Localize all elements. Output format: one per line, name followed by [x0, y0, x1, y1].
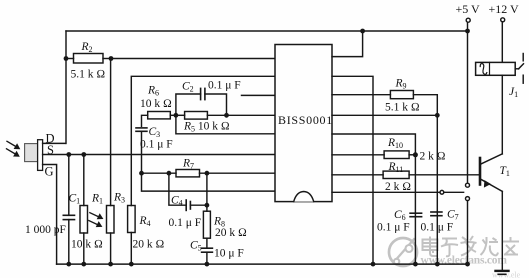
node R5 C2 right junction — [224, 113, 229, 118]
svg-text:20 k Ω: 20 k Ω — [133, 239, 165, 251]
R3 light arrows — [89, 213, 100, 225]
transistor T1 — [479, 158, 482, 185]
wire bottom ground bus — [57, 263, 468, 265]
wire BISS pin row4 right — [332, 114, 437, 116]
svg-text:2 k Ω: 2 k Ω — [385, 181, 411, 193]
capacitor C7 — [431, 211, 442, 213]
svg-text:5.1 k Ω: 5.1 k Ω — [385, 102, 420, 114]
svg-text:2 k Ω: 2 k Ω — [420, 151, 446, 163]
relay contact stub and blade — [515, 68, 518, 70]
node R2 right junction — [109, 56, 114, 61]
node C4 R8 junction — [205, 203, 210, 208]
capacitor C5 — [206, 238, 208, 248]
wire BISS pin row2 to R4 — [131, 76, 275, 205]
wire relay coil to T1 collector — [501, 75, 503, 154]
svg-text:10 k Ω: 10 k Ω — [140, 98, 172, 110]
svg-text:BISS0001: BISS0001 — [278, 113, 333, 127]
svg-text:10 k Ω: 10 k Ω — [71, 239, 103, 251]
PIR sensor flange bar — [38, 140, 43, 171]
watermark logo — [389, 238, 417, 266]
wire BISS pin row3 stub — [242, 94, 276, 96]
wire top +5V rail — [66, 30, 468, 32]
wire PIR source S pin to BISS — [43, 154, 275, 156]
svg-text:+12 V: +12 V — [489, 2, 520, 16]
svg-text:+5 V: +5 V — [456, 2, 481, 16]
capacitor C3 — [136, 127, 147, 129]
resistor R4 — [128, 206, 136, 233]
resistor R1 — [83, 155, 85, 206]
wire C3 down to R7 node and BISS pin row8 — [142, 131, 276, 191]
svg-text:0.1 μ F: 0.1 μ F — [140, 139, 173, 151]
wire R2 junction down to R3 — [110, 59, 112, 206]
+5V terminal — [466, 18, 470, 22]
resistor R2 — [74, 54, 104, 64]
node C1 top junction — [66, 152, 71, 157]
svg-text:S: S — [47, 143, 54, 157]
svg-text:0.1 μ F: 0.1 μ F — [208, 80, 241, 92]
capacitor C4 — [169, 173, 186, 205]
svg-text:R5 10 k Ω: R5 10 k Ω — [183, 121, 230, 134]
resistor R11 — [332, 174, 383, 176]
svg-text:10 μ F: 10 μ F — [214, 248, 244, 260]
resistor R9 — [332, 94, 390, 96]
resistor R10 — [332, 154, 384, 156]
wire PIR gate G pin — [43, 165, 57, 265]
svg-text:G: G — [45, 165, 54, 179]
wire left vertical from rail to PIR drain — [65, 31, 67, 143]
+12V terminal — [501, 18, 505, 22]
+12V line down to relay coil — [501, 22, 503, 63]
node R10 right junction — [413, 152, 418, 157]
watermark chinese characters — [423, 236, 520, 256]
wire R6 node down to BISS pin row5 — [176, 115, 275, 134]
node R6 R5 C2 left junction — [174, 113, 179, 118]
wire PIR drain D pin — [43, 142, 66, 144]
wire BISS vcc pin to rail — [332, 31, 363, 57]
capacitor C6 — [410, 212, 422, 214]
resistor R5 — [170, 114, 184, 116]
switch blade terminal circle — [440, 190, 444, 194]
resistor R8 — [206, 173, 208, 211]
node C7 bus junction — [435, 262, 440, 267]
wire R7 node line — [142, 172, 177, 174]
wire BISS output pin to switch blade — [332, 191, 440, 193]
node rail BISS tap — [360, 29, 365, 34]
PIR sensor light arrows — [7, 141, 17, 154]
node R1 top junction — [81, 152, 86, 157]
svg-text:0.1 μ F: 0.1 μ F — [169, 217, 202, 229]
wire BISS pin row5 right to C6 line — [332, 134, 415, 264]
svg-text:20 k Ω: 20 k Ω — [215, 227, 247, 239]
switch lower contact — [466, 197, 470, 201]
svg-text:5.1 k Ω: 5.1 k Ω — [71, 69, 106, 81]
svg-text:0.1 μ F: 0.1 μ F — [421, 222, 454, 234]
PIR sensor body — [25, 144, 38, 162]
node R2 left junction — [64, 56, 69, 61]
node R9 pin junction — [435, 113, 440, 118]
wire R11 to T1 base — [409, 174, 479, 176]
resistor R7 — [176, 170, 200, 177]
svg-text:0.1 μ F: 0.1 μ F — [377, 222, 410, 234]
node C3 R7 junction — [139, 171, 144, 176]
IC bottom notch — [294, 192, 314, 202]
wire BISS right pin row2 down to bus — [332, 76, 373, 264]
capacitor C1 — [68, 155, 70, 216]
node R7 left junction — [167, 171, 172, 176]
op-amp U1 BISS0001 IC box — [275, 45, 332, 202]
ground T1 emitter — [496, 270, 509, 272]
capacitor C2 — [176, 94, 201, 115]
relay J1 coil — [476, 62, 516, 75]
svg-text:1 000 pF: 1 000 pF — [25, 224, 66, 236]
resistor R6 — [148, 112, 171, 119]
resistor R3 photoresistor — [107, 206, 115, 234]
+5V supply line down to switch contact — [467, 31, 469, 183]
switch upper contact — [466, 183, 470, 187]
wire R2 to BISS pin row1 — [111, 58, 275, 60]
node R7 right junction — [205, 171, 210, 176]
